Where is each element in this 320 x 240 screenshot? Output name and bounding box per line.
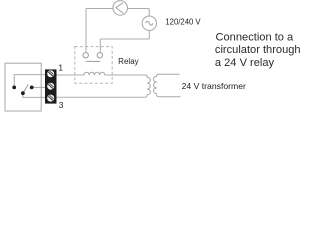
wire relay coil to transformer secondary (105, 74, 146, 76)
wire circulator to AC corner (128, 8, 150, 10)
bottom rail terminal3 to transformer secondary (57, 96, 146, 98)
top wire to circulator (86, 8, 113, 10)
screw 1 (47, 70, 54, 77)
svg-text:circulator through: circulator through (215, 44, 300, 56)
svg-text:a 24 V relay: a 24 V relay (215, 57, 275, 69)
caption text (215, 31, 301, 69)
svg-text:Relay: Relay (118, 57, 139, 66)
thermostat box (5, 63, 41, 111)
wire from switch right dot to terminal 2 (32, 86, 46, 88)
wire across to right contact (100, 38, 149, 40)
transformer secondary winding (145, 75, 150, 97)
relay armature bar (86, 60, 101, 62)
screw 3 (47, 95, 54, 102)
relay contact left (83, 53, 88, 58)
wire left contact up to top rail (85, 9, 87, 53)
wire A-up from switch left dot to terminal 1 (14, 75, 45, 88)
transformer primary winding (154, 74, 181, 97)
svg-text:3: 3 (59, 100, 64, 110)
wire down to AC source (148, 9, 150, 17)
switch dot C (30, 86, 34, 90)
screw 2 (47, 83, 54, 90)
wire down to right contact (99, 39, 101, 53)
relay coil L1 (84, 72, 105, 75)
switch dot A (12, 86, 16, 90)
svg-text:120/240 V: 120/240 V (165, 18, 201, 27)
wire terminal1 to relay coil (57, 74, 85, 76)
AC source 120/240 V (142, 16, 156, 30)
wire from switch common dot down to terminal 3 (23, 93, 46, 97)
svg-text:24 V transformer: 24 V transformer (182, 82, 247, 91)
relay contact right (97, 53, 102, 58)
svg-text:Connection to a: Connection to a (216, 31, 295, 43)
wire AC source down (148, 30, 150, 39)
switch dot B (21, 91, 25, 95)
svg-text:1: 1 (58, 63, 63, 73)
relay dashed box (75, 47, 112, 84)
switch blade (23, 84, 28, 93)
terminal strip (45, 69, 57, 103)
circulator M1 (113, 1, 128, 16)
